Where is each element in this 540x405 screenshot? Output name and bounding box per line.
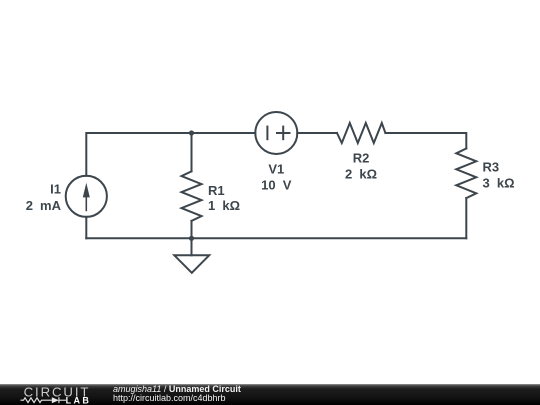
wire: left vertical below I1 [85,217,87,239]
svg-text:V1: V1 [268,161,284,176]
svg-text:R3: R3 [483,159,500,174]
footer text [112,383,114,385]
svg-text:LAB: LAB [66,395,92,405]
wire: V1 right terminal to R2 left lead [297,132,337,134]
svg-text:I1: I1 [50,182,61,197]
voltage source V1 [255,112,297,154]
CircuitLab logo [0,384,95,405]
svg-text:R2: R2 [353,150,370,165]
wire: R2 right lead to top-right corner down to R3 top [385,133,466,149]
svg-text:3 kΩ: 3 kΩ [483,175,515,190]
footer bar [0,384,540,405]
node: top junction [189,130,194,135]
wire: R1 top lead from top junction [191,133,193,171]
wire: R3 bottom lead down to bottom-right corner [465,198,467,238]
node: bottom junction [189,236,194,241]
ground [174,238,209,272]
svg-text:2 kΩ: 2 kΩ [345,167,377,182]
svg-text:2 mA: 2 mA [26,198,62,213]
svg-text:R1: R1 [208,183,225,198]
wire: R1 bottom lead to bottom junction [191,221,193,238]
resistor R3 [456,149,476,199]
resistor R2 [337,123,385,143]
current source I1 [66,176,107,217]
wire: top rail left (top-left corner to V1 left terminal) [86,133,255,176]
wire: bottom rail [86,237,466,239]
svg-text:1 kΩ: 1 kΩ [208,198,240,213]
svg-text:10 V: 10 V [261,177,292,192]
resistor R1 [182,171,202,221]
